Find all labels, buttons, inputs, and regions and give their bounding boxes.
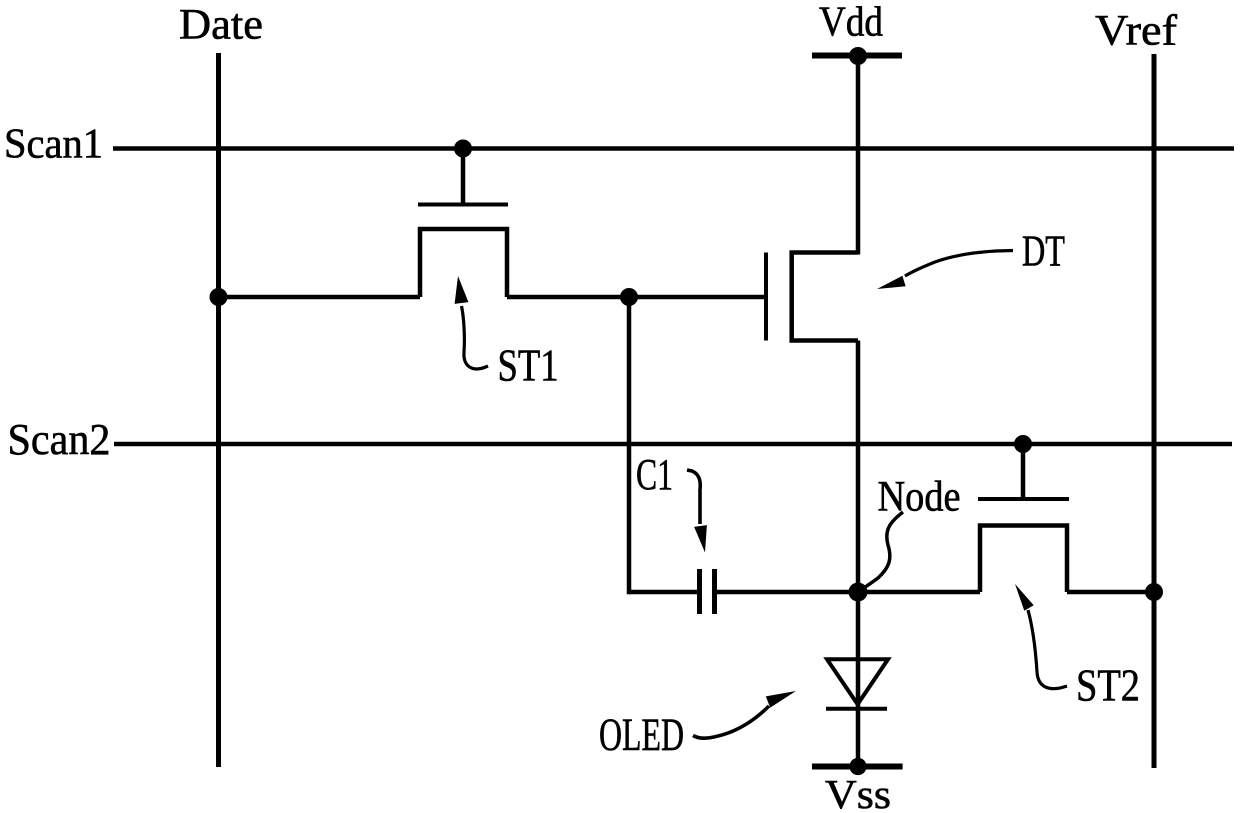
svg-text:ST1: ST1 <box>498 340 559 391</box>
junction dot on Scan2 at ST2 gate <box>1014 435 1032 453</box>
wire Vdd vertical to DT drain <box>856 56 861 255</box>
pointer arrow to OLED <box>693 691 796 738</box>
wire Date vertical line <box>216 53 221 767</box>
pointer arrow to ST1 <box>455 276 488 369</box>
svg-text:DT: DT <box>1022 226 1065 276</box>
wire Node down through OLED to Vss <box>856 592 861 767</box>
svg-text:Vdd: Vdd <box>819 0 883 46</box>
wire to C1 left plate <box>629 590 700 595</box>
wire Date line to ST1 source <box>219 295 421 300</box>
transistor ST2 body <box>980 526 1067 593</box>
svg-text:C1: C1 <box>636 450 673 499</box>
transistor DT body <box>792 253 858 341</box>
wire Vref vertical line <box>1152 54 1157 768</box>
pointer squiggle from Node label to node dot <box>861 512 903 590</box>
wire Node to ST2 source <box>858 590 980 595</box>
svg-text:OLED: OLED <box>599 709 684 761</box>
transistor ST2 gate bar <box>978 497 1069 501</box>
transistor ST1 gate bar <box>418 203 508 207</box>
svg-text:Scan2: Scan2 <box>8 414 111 464</box>
wire gate of DT to junction node <box>629 295 766 300</box>
junction dot on Date line <box>210 288 228 306</box>
diode OLED cathode bar <box>826 707 887 711</box>
diode OLED triangle <box>827 659 888 704</box>
junction dot on Scan1 at ST1 gate <box>454 140 472 158</box>
svg-text:ST2: ST2 <box>1076 660 1140 711</box>
capacitor C1 right plate <box>712 569 717 614</box>
junction dot Node <box>849 583 868 602</box>
node Vdd supply bar <box>812 53 902 59</box>
pointer arrow to ST2 <box>1015 584 1067 689</box>
wire ST1 gate lead <box>461 149 466 205</box>
pointer arrow to DT <box>877 251 1013 290</box>
svg-text:Vref: Vref <box>1095 8 1178 55</box>
junction dot at Vdd <box>849 47 867 65</box>
capacitor C1 left plate <box>697 569 702 614</box>
pointer arrow to C1 <box>687 470 707 553</box>
transistor ST1 body <box>420 229 507 297</box>
svg-text:Vss: Vss <box>825 771 891 813</box>
wire C1 right plate to Node <box>715 590 859 595</box>
svg-text:Scan1: Scan1 <box>4 122 103 168</box>
junction dot at Vss <box>849 758 866 775</box>
wire DT source down to Node <box>856 341 861 593</box>
wire gate node down to capacitor <box>627 297 632 594</box>
junction dot at gate node <box>620 288 638 306</box>
transistor DT gate bar <box>764 253 768 341</box>
wire ST2 gate lead <box>1021 444 1026 499</box>
wire ST2 drain to Vref <box>1067 590 1154 595</box>
svg-text:Node: Node <box>878 474 961 521</box>
node Vss supply bar <box>812 764 903 770</box>
wire Scan1 horizontal line <box>113 146 1234 151</box>
svg-text:Date: Date <box>179 2 263 49</box>
wire Scan2 horizontal line <box>114 442 1232 447</box>
junction dot on Vref line <box>1145 583 1163 601</box>
wire ST1 drain to gate node <box>507 295 629 300</box>
